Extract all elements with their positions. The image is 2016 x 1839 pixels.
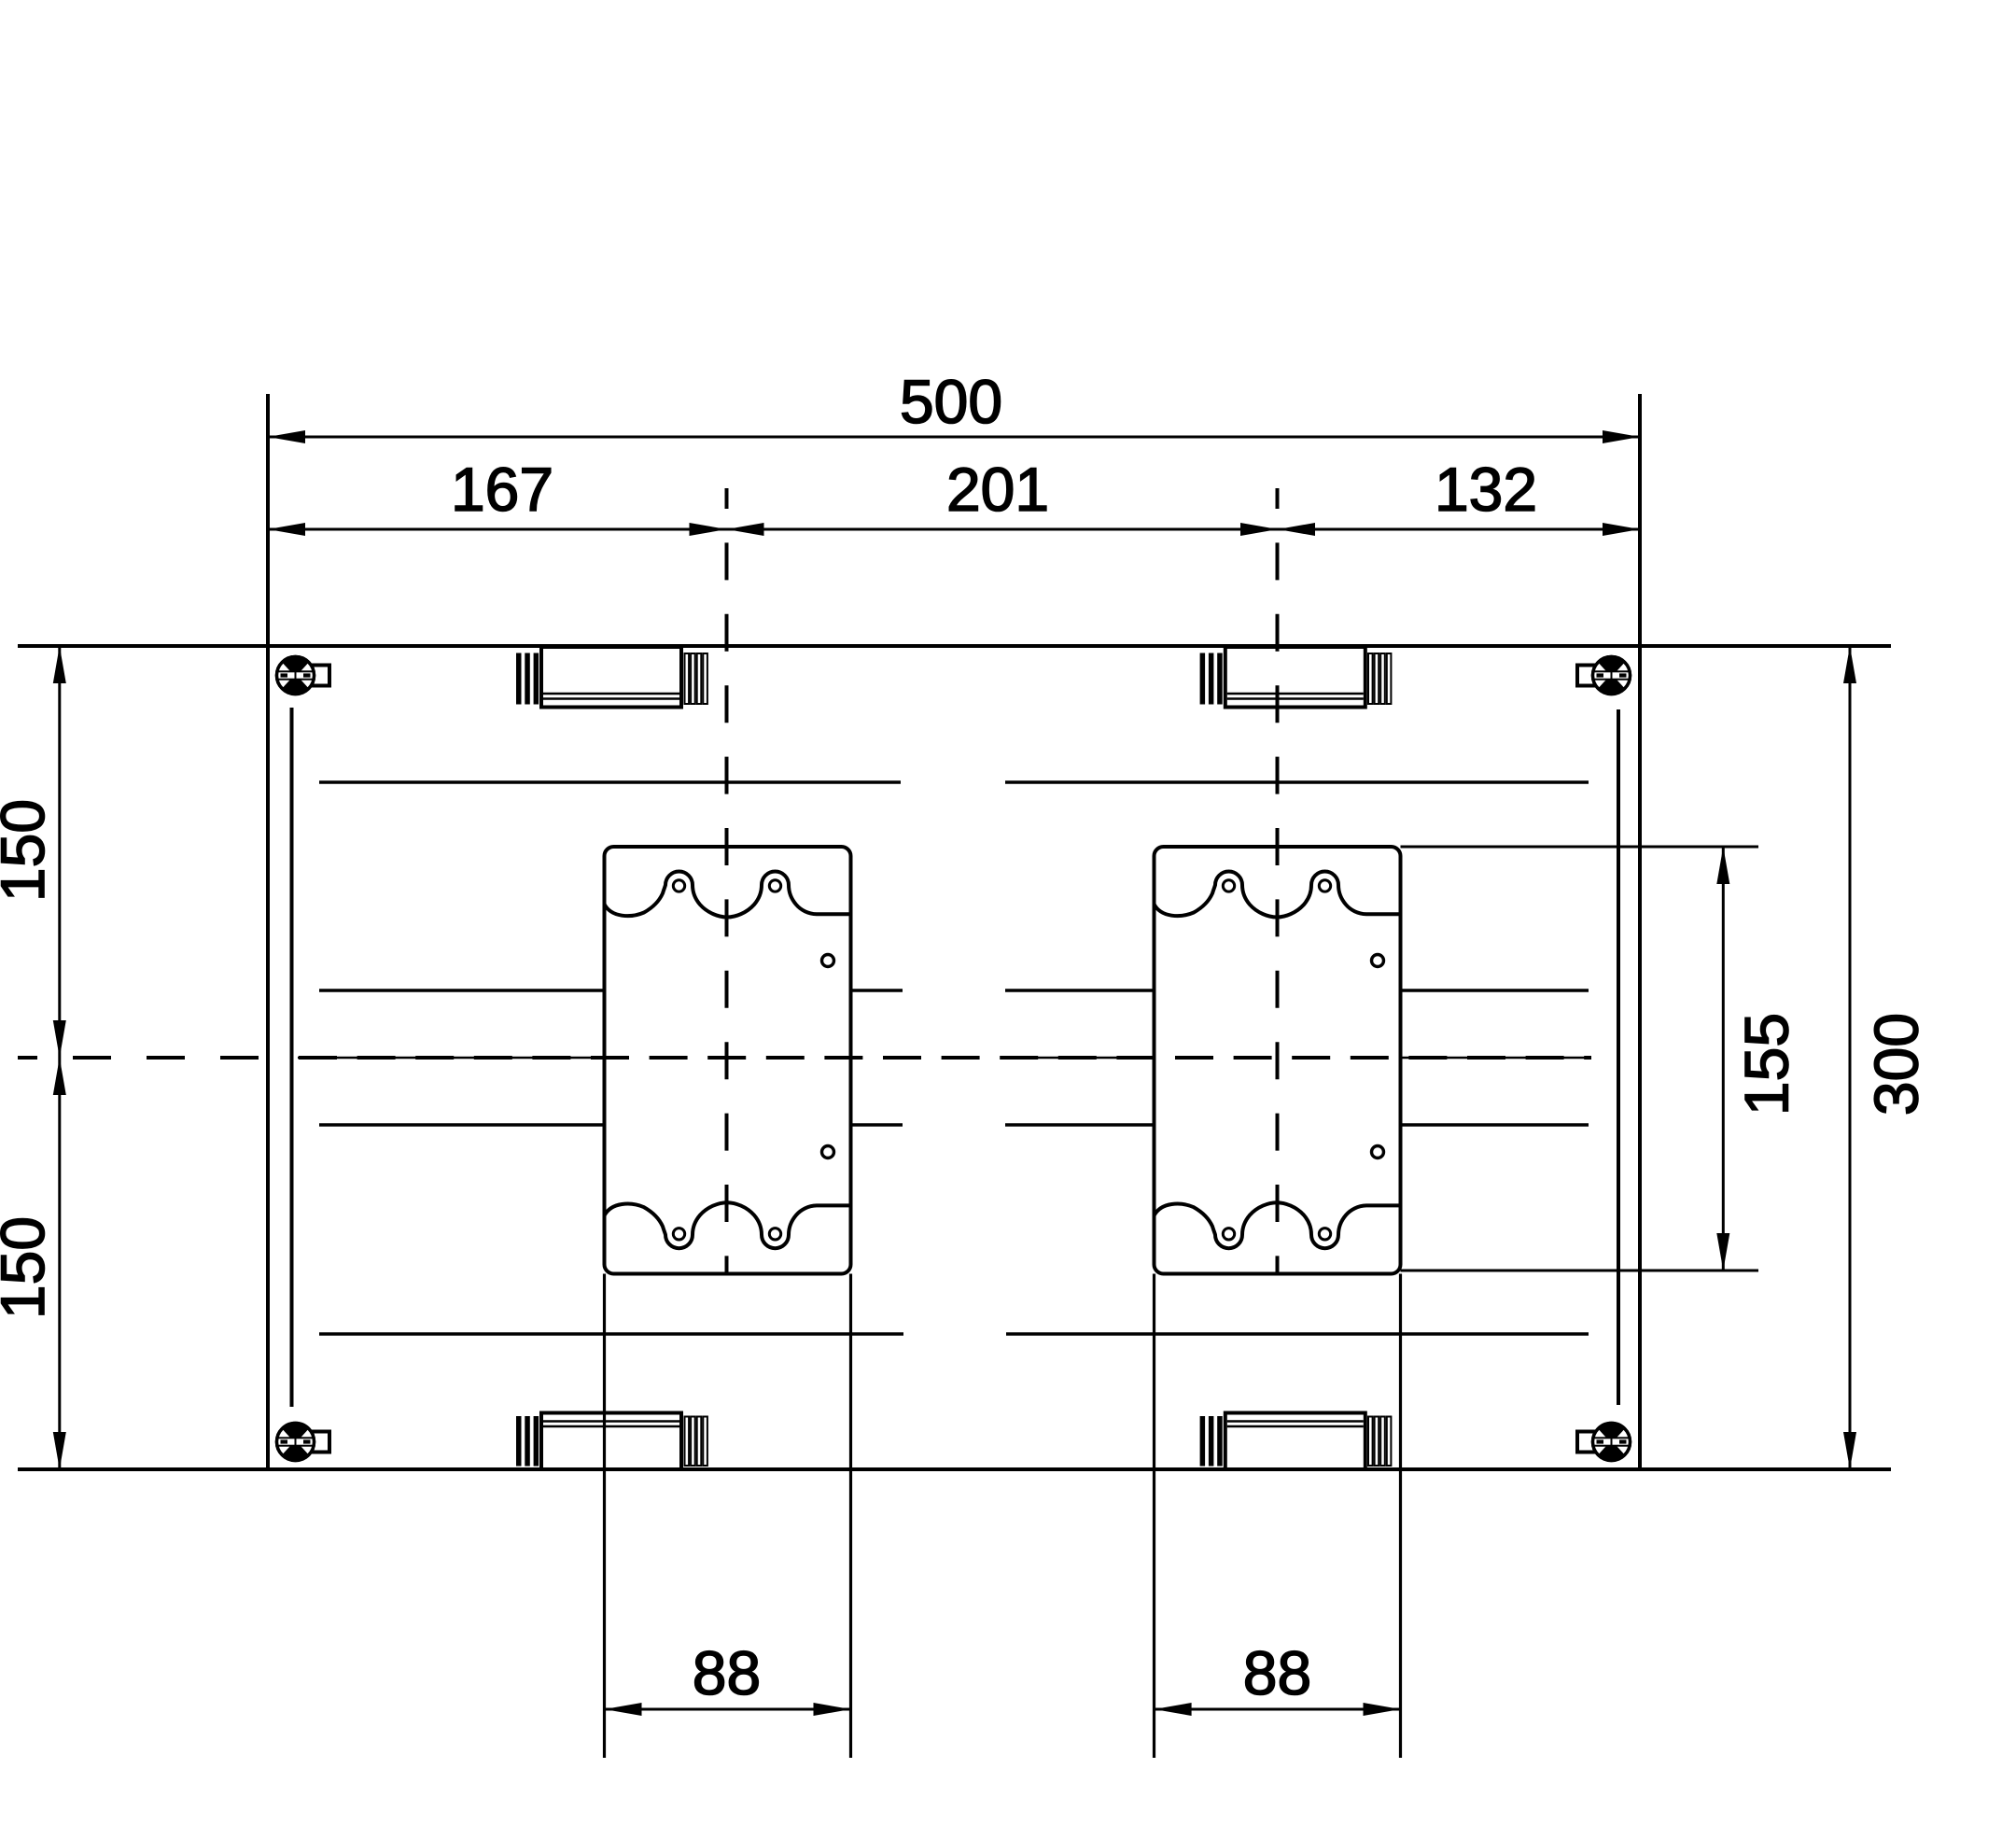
screw bottom-left — [275, 1424, 329, 1461]
box right edge extension to 88 dim — [1399, 1274, 1402, 1759]
svg-text:88: 88 — [1243, 1638, 1311, 1707]
horizontal centerline dashed main — [299, 1056, 1591, 1060]
svg-text:167: 167 — [451, 455, 553, 524]
plate bottom edge — [18, 1467, 1891, 1471]
side fixing hole lower — [1372, 1146, 1384, 1158]
dimension 150/150 line left — [58, 646, 61, 1469]
screw top-left — [275, 657, 329, 695]
membrane screw hole top 2 — [1319, 880, 1330, 891]
horizontal centerline dashes outside left — [18, 1056, 268, 1060]
module 2 vertical dashed centerline — [1276, 488, 1280, 1272]
dimension 155 extension lines — [1401, 846, 1759, 849]
plate right edge + 500 extension — [1638, 394, 1642, 1469]
svg-text:150: 150 — [0, 1216, 57, 1319]
membrane screw hole top 2 — [769, 880, 780, 891]
inner vertical channel line right — [1617, 709, 1620, 1405]
clip latch top-left — [516, 647, 707, 708]
screw top-right — [1577, 657, 1631, 695]
plate left edge + 500 extension — [266, 394, 270, 1469]
interior row A lower right segment — [1006, 1332, 1589, 1336]
clip latch bottom-right — [1200, 1413, 1392, 1470]
side fixing hole upper — [1372, 955, 1384, 967]
membrane screw hole bottom 1 — [1223, 1228, 1234, 1240]
box right edge extension to 88 dim — [849, 1274, 852, 1759]
svg-text:201: 201 — [946, 455, 1049, 524]
membrane screw hole bottom 2 — [1319, 1228, 1330, 1240]
box left edge extension to 88 dim — [603, 1274, 606, 1759]
svg-text:132: 132 — [1435, 455, 1537, 524]
inner vertical channel line left — [290, 708, 294, 1407]
dimension 300 line — [1849, 646, 1852, 1469]
svg-text:88: 88 — [693, 1638, 761, 1707]
interior row A lower left segment — [319, 1332, 903, 1336]
svg-text:155: 155 — [1732, 1013, 1801, 1116]
box rounded rect — [605, 847, 851, 1274]
interior row B upper segments — [319, 989, 605, 992]
membrane screw hole bottom 2 — [769, 1228, 780, 1240]
membrane screw hole top 1 — [1223, 880, 1234, 891]
box rounded rect — [1155, 847, 1401, 1274]
clip latch bottom-left — [516, 1413, 707, 1470]
module 1 vertical dashed centerline — [725, 488, 729, 1272]
dimension 88 right line — [1155, 1708, 1401, 1711]
svg-text:500: 500 — [900, 367, 1002, 436]
bottom membrane wavy line — [605, 1202, 851, 1248]
interior row B lower segments — [319, 1123, 605, 1127]
svg-text:150: 150 — [0, 799, 57, 902]
top membrane wavy line — [605, 872, 851, 918]
top membrane wavy line — [1155, 872, 1401, 918]
interior row A upper left segment — [319, 780, 901, 784]
right mounting box group (translated copy) — [1155, 847, 1401, 1758]
dimension 155 line — [1722, 847, 1725, 1270]
plate top edge — [18, 644, 1891, 648]
clip latch top-right — [1200, 647, 1392, 708]
bottom membrane wavy line — [1155, 1202, 1401, 1248]
box left edge extension to 88 dim — [1153, 1274, 1155, 1759]
dimension 88 left line — [605, 1708, 851, 1711]
centerline thin solid segments — [298, 1057, 605, 1060]
side fixing hole lower — [822, 1146, 834, 1158]
dimension labels — [0, 367, 1931, 1707]
svg-text:300: 300 — [1862, 1013, 1931, 1116]
membrane screw hole top 1 — [673, 880, 684, 891]
side fixing hole upper — [822, 955, 834, 967]
dimension 500 line — [268, 436, 1640, 439]
membrane screw hole bottom 1 — [673, 1228, 684, 1240]
dimension 167/201/132 line — [268, 528, 1640, 531]
interior row A upper right segment — [1005, 780, 1589, 784]
screw bottom-right — [1577, 1424, 1631, 1461]
left mounting box group — [605, 847, 851, 1758]
